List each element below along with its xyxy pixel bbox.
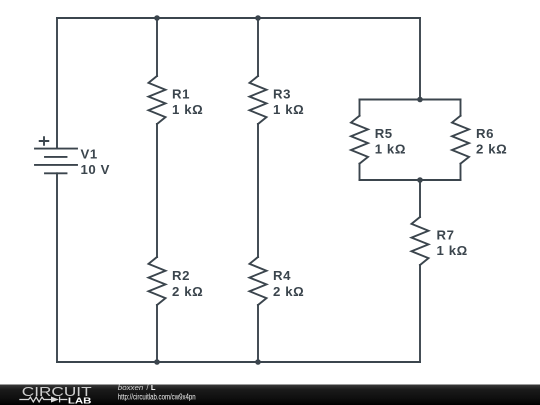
svg-text:1 kΩ: 1 kΩ	[273, 102, 304, 117]
svg-text:R4: R4	[273, 268, 291, 283]
node junction parallel bottom	[417, 177, 423, 183]
node junction bottom branch2	[255, 359, 261, 365]
wire R6 top lead	[460, 100, 462, 116]
svg-text:LAB: LAB	[68, 396, 92, 405]
node junction top branch2	[255, 15, 261, 21]
wire branch2 middle	[257, 124, 259, 257]
wire parallel bottom rail	[360, 179, 461, 181]
resistor R7	[412, 217, 429, 265]
wire branch1 middle	[156, 124, 158, 257]
wire R7 top lead	[419, 180, 421, 217]
wire top rail	[57, 17, 420, 19]
wire right side upper	[419, 18, 421, 100]
resistor R1	[149, 76, 166, 124]
battery V1	[35, 137, 77, 173]
wire left side lower	[56, 173, 58, 362]
svg-text:1 kΩ: 1 kΩ	[375, 142, 406, 157]
svg-text:2 kΩ: 2 kΩ	[476, 142, 507, 157]
wire branch2 top lead	[257, 18, 259, 76]
svg-text:R2: R2	[172, 268, 190, 283]
svg-text:boxxen: boxxen	[118, 383, 144, 392]
wire branch1 top lead	[156, 18, 158, 76]
node junction bottom branch1	[154, 359, 160, 365]
resistor R5	[351, 116, 368, 164]
resistor R4	[250, 257, 267, 305]
node junction parallel top	[417, 97, 423, 103]
svg-text:R6: R6	[476, 126, 494, 141]
footer bar	[0, 385, 540, 405]
wire parallel top rail	[360, 99, 461, 101]
svg-text:R3: R3	[273, 87, 291, 102]
svg-text:R1: R1	[172, 87, 190, 102]
svg-text:1 kΩ: 1 kΩ	[437, 243, 468, 258]
wire R5 bottom lead	[359, 164, 361, 180]
wire branch2 bottom lead	[257, 305, 259, 362]
wire R5 top lead	[359, 100, 361, 116]
svg-text:V1: V1	[81, 147, 98, 162]
resistor R3	[250, 76, 267, 124]
svg-text:R7: R7	[437, 228, 455, 243]
svg-text:L: L	[151, 383, 156, 392]
wire R6 bottom lead	[460, 164, 462, 180]
svg-text:R5: R5	[375, 126, 393, 141]
svg-text:2 kΩ: 2 kΩ	[273, 284, 304, 299]
wire bottom rail	[57, 361, 420, 363]
resistor R2	[149, 257, 166, 305]
wire branch1 bottom lead	[156, 305, 158, 362]
svg-text:http://circuitlab.com/cw9x4pn: http://circuitlab.com/cw9x4pn	[118, 393, 196, 402]
wire left side upper	[56, 18, 58, 149]
wire R7 bottom lead	[419, 265, 421, 362]
logo squiggle resistor diode	[19, 397, 67, 403]
resistor R6	[452, 116, 469, 164]
svg-text:1 kΩ: 1 kΩ	[172, 102, 203, 117]
svg-text:2 kΩ: 2 kΩ	[172, 284, 203, 299]
node junction top branch1	[154, 15, 160, 21]
svg-text:10 V: 10 V	[81, 162, 111, 177]
